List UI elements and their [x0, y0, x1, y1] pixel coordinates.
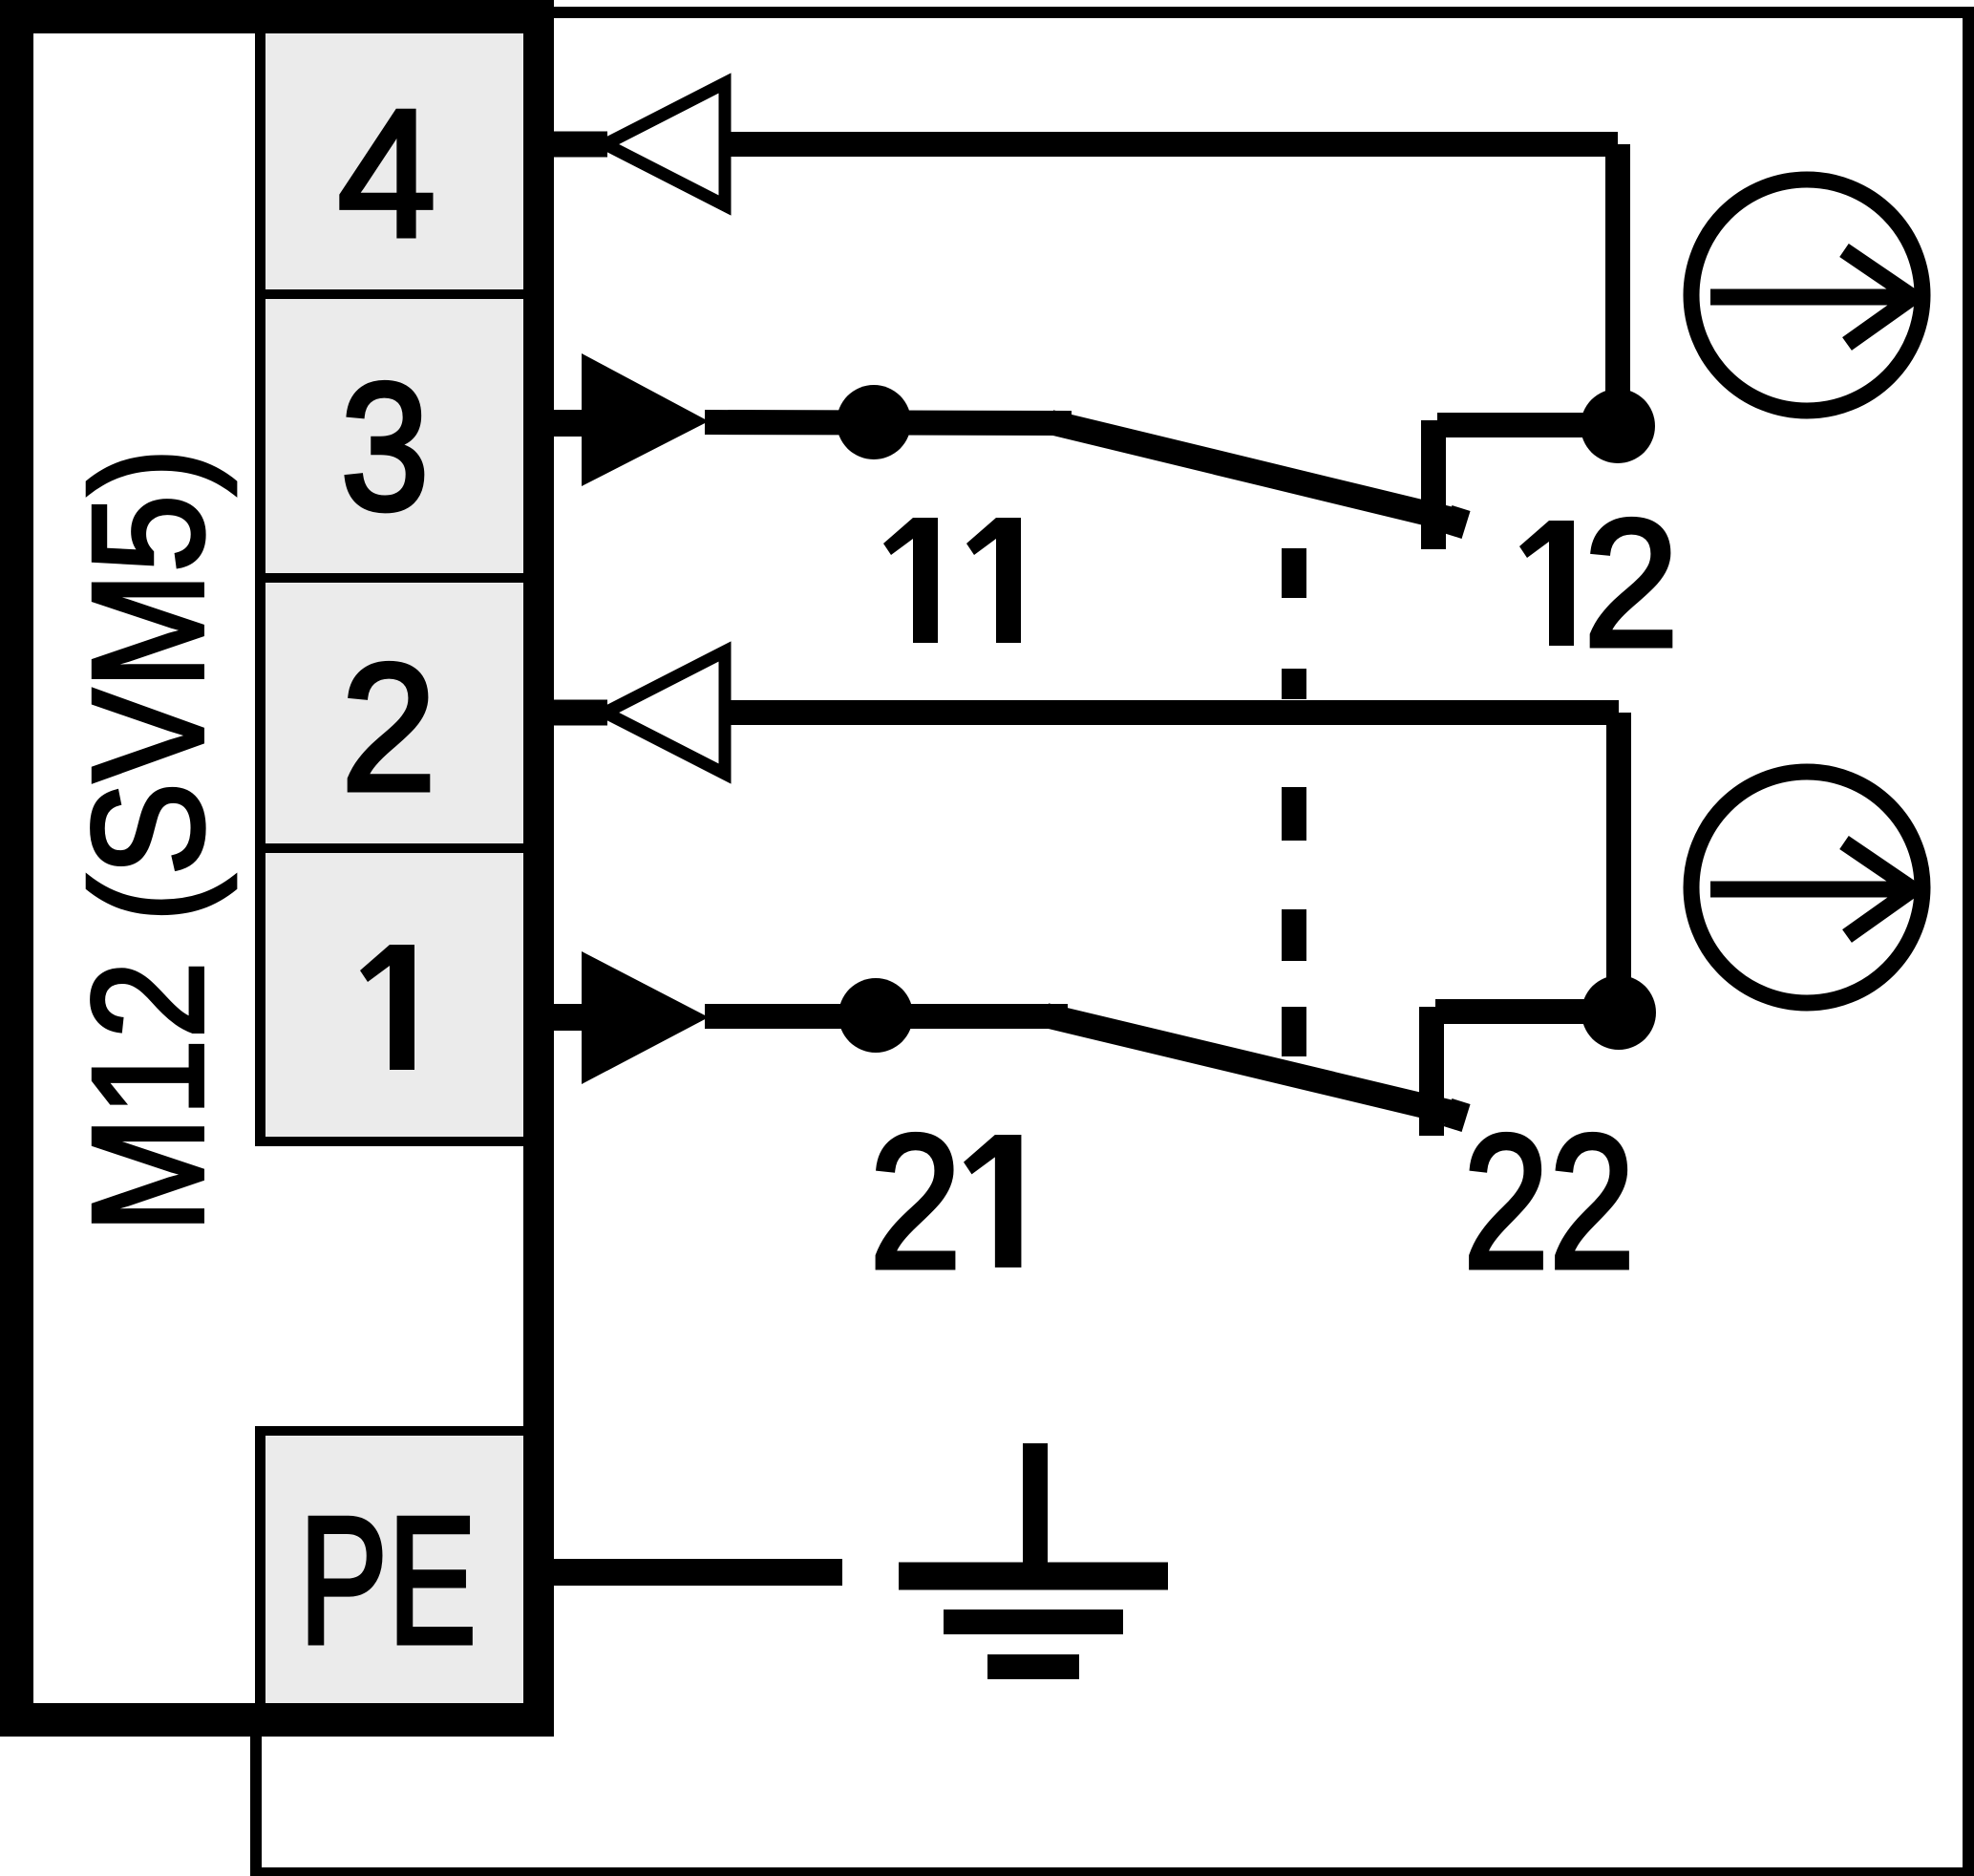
pin column right thick bar [523, 0, 554, 1737]
actuator arrow 1 head [1844, 250, 1913, 344]
contact 22 foot [1435, 999, 1619, 1024]
junction dot at 12 [1581, 389, 1655, 463]
wire pin1 to blade pivot [705, 1004, 1068, 1029]
junction dot 11 [837, 385, 911, 459]
wire pin3 to blade pivot [705, 422, 1072, 423]
blade 21-22 tip tick [1453, 1101, 1461, 1129]
ground bar 1 [899, 1563, 1168, 1590]
junction dot at 22 [1581, 975, 1656, 1050]
pin column left border (PE box) [255, 1426, 265, 1703]
connector housing M12 [0, 0, 524, 33]
actuator circle 2 [1691, 772, 1922, 1003]
pin box 2 [265, 583, 523, 843]
wire corner down to contact 12 [1605, 144, 1630, 426]
wire pin4 to corner [728, 132, 1618, 157]
ground bar 3 [987, 1654, 1079, 1679]
pin label 1 [360, 945, 414, 1070]
contact 12 foot [1437, 413, 1618, 437]
contact 22 bar [1419, 1007, 1444, 1136]
label 11 [883, 518, 938, 643]
svg-text:22: 22 [1463, 1096, 1635, 1309]
pin box 3 [265, 299, 523, 573]
svg-text:3: 3 [341, 346, 430, 548]
pin column left border (boxes 4..1) [255, 33, 265, 1145]
svg-text:M12 (SVM5): M12 (SVM5) [60, 448, 237, 1233]
pin 1 filled arrowhead [582, 951, 709, 1084]
svg-text:2: 2 [341, 627, 436, 829]
PE wire [554, 1559, 842, 1586]
switch blade 11-12 [1051, 422, 1453, 520]
wire corner down to contact 22 [1606, 713, 1631, 1013]
svg-text:4: 4 [338, 73, 436, 275]
ground bar 2 [944, 1610, 1123, 1634]
switch blade 21-22 [1046, 1015, 1453, 1113]
ground symbol stem [1023, 1443, 1048, 1576]
pin 2 wire stub [554, 700, 607, 726]
pin 4 open arrowhead [605, 83, 725, 205]
separator 3/2 [255, 573, 523, 583]
separator 4/3 [255, 289, 523, 299]
wire pin2 to corner [728, 700, 1619, 725]
mechanical link (dashed) [1282, 548, 1306, 598]
label 12 [1519, 521, 1574, 646]
contact 12 bar [1421, 420, 1446, 549]
svg-text:2: 2 [1583, 482, 1679, 685]
pin box 1 [265, 853, 523, 1137]
svg-text:2: 2 [869, 1096, 962, 1309]
blade 11-12 tip tick [1453, 508, 1461, 536]
actuator circle 1 [1691, 180, 1922, 411]
pin box 1 bottom border [255, 1137, 523, 1146]
pin 3 wire stub [554, 410, 584, 437]
actuator arrow 2 head [1844, 842, 1913, 936]
actuator arrow 1 shaft [1710, 289, 1906, 306]
svg-text:PE: PE [299, 1480, 477, 1682]
pin 1 wire stub [554, 1004, 584, 1031]
pin box PE [265, 1436, 523, 1703]
pin 4 wire stub [554, 132, 607, 158]
pin 2 open arrowhead [605, 651, 725, 774]
junction dot 21 [838, 978, 913, 1053]
pin box PE top border [255, 1426, 523, 1436]
pin box 4 [265, 33, 523, 289]
actuator arrow 2 shaft [1710, 882, 1906, 898]
pin 3 filled arrowhead [582, 353, 709, 486]
separator 2/1 [255, 843, 523, 853]
